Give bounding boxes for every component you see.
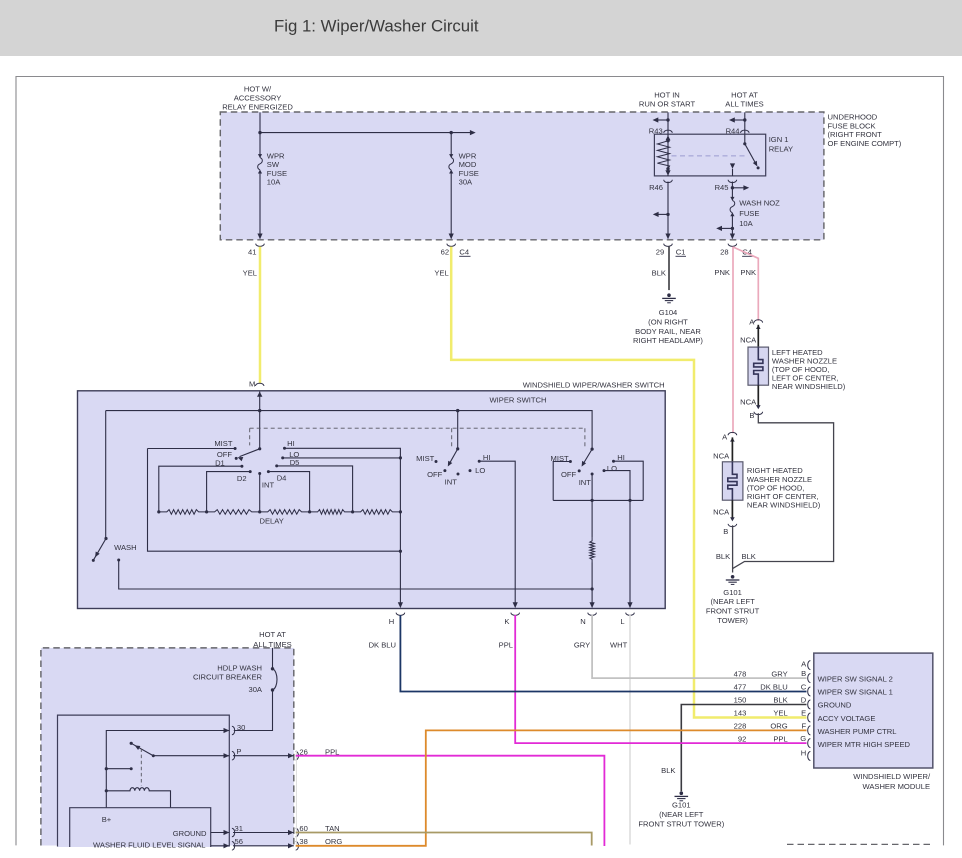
middle switch arm: [449, 449, 458, 464]
left switch LO contact: [281, 456, 284, 459]
left switch HI contact: [283, 447, 286, 450]
wire ORG 38 to module F: [296, 730, 807, 845]
svg-text:31: 31: [235, 824, 243, 833]
svg-text:CIRCUIT BREAKER: CIRCUIT BREAKER: [193, 672, 263, 681]
svg-text:NCA: NCA: [713, 452, 730, 461]
left switch INT contact: [258, 472, 261, 475]
svg-text:HI: HI: [287, 439, 295, 448]
svg-text:10A: 10A: [739, 219, 753, 228]
svg-text:TOWER): TOWER): [717, 616, 748, 625]
windshield wiper/washer module box: [814, 653, 933, 768]
svg-text:A: A: [801, 660, 807, 669]
circuit breaker HDLP WASH 30A: [272, 648, 274, 668]
wire M feed: [259, 392, 261, 449]
wire P to connector 26: [233, 755, 294, 757]
svg-text:WASHER FLUID LEVEL SIGNAL: WASHER FLUID LEVEL SIGNAL: [93, 841, 206, 850]
terminal N: [590, 602, 595, 608]
svg-text:C: C: [801, 683, 807, 692]
wash contact wire to N: [117, 559, 120, 562]
wire PPL 26: [296, 756, 605, 846]
left rail MIST to delay bottom: [148, 449, 401, 552]
svg-text:BLK: BLK: [742, 552, 756, 561]
svg-text:NCA: NCA: [740, 336, 757, 345]
terminal P: [224, 753, 230, 758]
left switch D4 contact: [267, 470, 270, 473]
svg-text:228: 228: [734, 722, 747, 731]
svg-text:P: P: [236, 747, 241, 756]
svg-text:WPR: WPR: [459, 151, 477, 160]
svg-text:WINDSHIELD WIPER/: WINDSHIELD WIPER/: [853, 772, 931, 781]
wire breaker to terminal 30: [234, 690, 273, 731]
svg-text:(RIGHT FRONT: (RIGHT FRONT: [828, 130, 883, 139]
svg-text:H: H: [389, 617, 394, 626]
wire HI to terminal H: [285, 448, 401, 604]
wire right nozzle B to ground G101: [732, 525, 734, 572]
svg-text:PNK: PNK: [714, 268, 730, 277]
left switch D5 contact: [275, 464, 278, 467]
right switch LO contact: [603, 469, 606, 472]
svg-text:GRY: GRY: [771, 669, 787, 678]
wire left nozzle B to ground G101: [733, 413, 834, 568]
resistor in wiper switch: [590, 538, 595, 563]
svg-text:BODY RAIL, NEAR: BODY RAIL, NEAR: [635, 327, 701, 336]
wire R43 feed: [667, 112, 669, 134]
svg-text:OFF: OFF: [561, 470, 577, 479]
wire 31 to connector 60: [233, 832, 294, 834]
svg-text:OFF: OFF: [427, 470, 443, 479]
svg-text:HI: HI: [483, 453, 491, 462]
inline connector B right nozzle: [730, 517, 735, 521]
svg-text:BLK: BLK: [661, 766, 675, 775]
wire R46 to terminal 29: [667, 182, 669, 239]
washer pump switch contact: [106, 768, 131, 770]
ground G104: [667, 293, 671, 297]
svg-text:150: 150: [734, 695, 747, 704]
svg-text:62: 62: [441, 247, 449, 256]
left switch OFF contact: [235, 457, 238, 460]
svg-text:TAN: TAN: [325, 824, 340, 833]
svg-text:MIST: MIST: [214, 439, 233, 448]
arrow out of relay R46: [665, 170, 670, 175]
svg-text:Fig 1: Wiper/Washer Circuit: Fig 1: Wiper/Washer Circuit: [274, 17, 479, 36]
svg-text:E: E: [801, 709, 806, 718]
svg-text:INT: INT: [262, 480, 275, 489]
svg-text:WASH NOZ: WASH NOZ: [739, 199, 780, 208]
svg-text:G: G: [800, 734, 806, 743]
terminal 62 C4: [449, 234, 454, 240]
svg-text:DELAY: DELAY: [260, 517, 284, 526]
svg-text:30: 30: [237, 723, 245, 732]
svg-text:K: K: [504, 617, 509, 626]
svg-text:FRONT STRUT TOWER): FRONT STRUT TOWER): [638, 820, 724, 829]
svg-text:NEAR WINDSHIELD): NEAR WINDSHIELD): [747, 501, 821, 510]
svg-text:N: N: [580, 617, 585, 626]
svg-text:FUSE: FUSE: [267, 169, 287, 178]
svg-text:DK BLU: DK BLU: [760, 682, 787, 691]
wire R45 to WASH NOZ fuse: [731, 182, 733, 201]
svg-text:GROUND: GROUND: [173, 829, 207, 838]
svg-text:R45: R45: [715, 183, 729, 192]
svg-text:LO: LO: [607, 464, 617, 473]
right wiper switch pivot: [591, 448, 594, 451]
svg-text:D: D: [801, 696, 807, 705]
module terminals A-H: [808, 661, 811, 670]
wire resistor to terminal N: [591, 563, 593, 605]
fuse WASH NOZ FUSE 10A: [730, 197, 734, 201]
svg-text:RUN OR START: RUN OR START: [639, 100, 696, 109]
terminal L: [627, 602, 632, 608]
svg-text:29: 29: [656, 247, 664, 256]
wire INT to resistor: [591, 474, 593, 538]
mechanical link dashed: [250, 427, 585, 429]
middle switch OFF contact: [443, 469, 446, 472]
svg-text:D4: D4: [277, 474, 287, 483]
svg-text:D2: D2: [237, 474, 247, 483]
terminal 41: [257, 234, 262, 240]
washer pump switch arm: [130, 742, 133, 745]
svg-text:MIST: MIST: [416, 454, 435, 463]
svg-text:FUSE: FUSE: [739, 209, 759, 218]
middle switch HI contact: [478, 460, 481, 463]
svg-text:B: B: [749, 411, 754, 420]
svg-text:BLK: BLK: [652, 269, 666, 278]
svg-text:SW: SW: [267, 160, 280, 169]
svg-text:LO: LO: [475, 466, 485, 475]
svg-text:G101: G101: [672, 801, 691, 810]
terminal H: [398, 602, 403, 608]
partial dashed box bottom right: [787, 843, 934, 845]
svg-text:NCA: NCA: [740, 398, 757, 407]
svg-text:HOT W/: HOT W/: [244, 85, 272, 94]
washer pump relay coil dashed link: [140, 749, 142, 786]
wire BLK 29 to G104: [668, 247, 670, 291]
wire left nozzle A: [757, 325, 759, 347]
terminal K: [513, 602, 518, 608]
svg-text:ORG: ORG: [325, 837, 342, 846]
svg-text:RELAY ENERGIZED: RELAY ENERGIZED: [222, 103, 293, 112]
wash switch pivot and arm: [104, 537, 107, 540]
washer pump coil: [106, 788, 170, 808]
svg-text:H: H: [801, 748, 806, 757]
terminal 28 C4: [728, 244, 737, 247]
svg-text:L: L: [620, 617, 624, 626]
terminal 31: [224, 830, 230, 835]
middle switch MIST contact: [435, 460, 438, 463]
svg-text:38: 38: [299, 837, 307, 846]
svg-text:B: B: [801, 669, 806, 678]
fuse WPR SW FUSE 10A: [258, 154, 262, 158]
svg-text:28: 28: [720, 247, 728, 256]
left switch pivot and arm: [258, 447, 261, 450]
svg-text:HOT AT: HOT AT: [259, 630, 286, 639]
delay resistor ladder: [159, 510, 207, 515]
svg-text:41: 41: [248, 247, 256, 256]
svg-text:MOD: MOD: [459, 160, 477, 169]
wire fuse to terminal 28: [731, 213, 733, 238]
wire right nozzle A: [731, 437, 733, 461]
svg-text:PPL: PPL: [773, 735, 787, 744]
wire ground pin to 31: [211, 832, 230, 834]
svg-text:M: M: [249, 379, 255, 388]
connector R45: [728, 180, 737, 183]
svg-text:NCA: NCA: [713, 508, 730, 517]
wiper/washer switch box: [78, 391, 666, 609]
svg-text:GROUND: GROUND: [818, 701, 852, 710]
svg-text:YEL: YEL: [434, 269, 448, 278]
wire rail to terminal L: [629, 500, 631, 604]
terminal 30: [224, 728, 230, 733]
svg-text:PNK: PNK: [740, 268, 756, 277]
right heated washer nozzle: [722, 462, 743, 500]
wire GRY from N to module B: [592, 615, 806, 678]
wire WPR MOD fuse: [450, 133, 452, 158]
right switch arm: [583, 449, 592, 464]
connector R46: [664, 180, 673, 183]
header bar: [0, 0, 962, 56]
terminal 56: [224, 843, 230, 848]
wire BLK module D to ground G101: [681, 705, 806, 792]
connector column line: [295, 750, 297, 845]
bus from M across switches: [106, 411, 592, 450]
svg-text:WASH: WASH: [114, 543, 137, 552]
svg-text:PPL: PPL: [499, 641, 513, 650]
svg-text:DK BLU: DK BLU: [369, 641, 396, 650]
svg-text:ACCY VOLTAGE: ACCY VOLTAGE: [818, 714, 876, 723]
svg-text:60: 60: [299, 824, 307, 833]
middle switch INT contact: [457, 473, 460, 476]
wire TAN 60: [296, 833, 592, 846]
svg-text:30A: 30A: [459, 178, 473, 187]
svg-text:WHT: WHT: [610, 641, 628, 650]
svg-text:WIPER SWITCH: WIPER SWITCH: [490, 396, 547, 405]
svg-text:G101: G101: [723, 588, 742, 597]
wire WPR SW fuse feed: [259, 112, 261, 157]
svg-text:WPR: WPR: [267, 151, 285, 160]
wire R44 feed: [744, 112, 746, 134]
svg-text:ALL TIMES: ALL TIMES: [725, 100, 763, 109]
svg-text:YEL: YEL: [773, 708, 787, 717]
svg-text:RIGHT HEADLAMP): RIGHT HEADLAMP): [633, 336, 703, 345]
svg-text:HI: HI: [617, 453, 625, 462]
left switch D2 contact: [249, 470, 252, 473]
svg-text:92: 92: [738, 735, 746, 744]
svg-text:GRY: GRY: [574, 641, 590, 650]
washer pump motor box B+: [70, 808, 211, 847]
washer pump dashed box: [41, 648, 294, 846]
svg-text:R46: R46: [649, 183, 663, 192]
svg-text:RELAY: RELAY: [769, 145, 793, 154]
svg-text:(NEAR LEFT: (NEAR LEFT: [659, 810, 704, 819]
relay switch lower contact R45: [730, 163, 735, 168]
svg-text:ORG: ORG: [770, 722, 787, 731]
svg-text:(ON RIGHT: (ON RIGHT: [648, 318, 688, 327]
svg-text:YEL: YEL: [243, 269, 257, 278]
svg-text:HOT IN: HOT IN: [654, 91, 680, 100]
svg-text:NEAR WINDSHIELD): NEAR WINDSHIELD): [772, 382, 846, 391]
svg-text:478: 478: [734, 669, 747, 678]
right switch common rail: [553, 499, 643, 501]
wire middle HI to terminal K: [479, 461, 515, 604]
svg-text:INT: INT: [445, 478, 458, 487]
svg-text:A: A: [722, 433, 728, 442]
wire PPL K to module G: [515, 615, 806, 743]
svg-text:WASHER MODULE: WASHER MODULE: [862, 782, 930, 791]
wire YEL from 62 to module E: [451, 247, 806, 718]
svg-text:FUSE: FUSE: [459, 169, 479, 178]
relay coil: [666, 135, 671, 140]
svg-text:BLK: BLK: [773, 695, 787, 704]
svg-text:C1: C1: [676, 247, 686, 256]
wire PNK 28 to left nozzle: [733, 247, 758, 321]
svg-text:F: F: [802, 721, 807, 730]
svg-text:WIPER SW SIGNAL 2: WIPER SW SIGNAL 2: [818, 675, 893, 684]
bus wire to WPR MOD fuse: [260, 132, 472, 134]
inline connector B left nozzle: [756, 405, 761, 409]
left wiper switch: MIST contact: [148, 448, 236, 450]
svg-text:(NEAR LEFT: (NEAR LEFT: [710, 597, 755, 606]
svg-text:G104: G104: [659, 308, 678, 317]
svg-text:WINDSHIELD WIPER/WASHER SWITCH: WINDSHIELD WIPER/WASHER SWITCH: [523, 381, 665, 390]
svg-text:FUSE BLOCK: FUSE BLOCK: [828, 121, 876, 130]
svg-text:WIPER MTR HIGH SPEED: WIPER MTR HIGH SPEED: [818, 740, 911, 749]
fuse WPR MOD FUSE 30A: [449, 154, 453, 158]
wire WHT from L: [629, 615, 631, 845]
wire switch to terminal P: [153, 755, 229, 757]
terminal 29 C1: [664, 244, 673, 247]
relay switch arm: [744, 134, 746, 143]
svg-text:477: 477: [734, 682, 747, 691]
svg-text:56: 56: [235, 837, 243, 846]
relay U1 IGN 1 box: [654, 134, 765, 176]
svg-text:WASHER PUMP CTRL: WASHER PUMP CTRL: [818, 727, 897, 736]
connector R44: [741, 130, 750, 133]
svg-text:B+: B+: [102, 815, 112, 824]
right switch MIST contact: [569, 460, 572, 463]
right switch OFF contact: [578, 469, 581, 472]
svg-text:143: 143: [734, 708, 747, 717]
ground G101 right: [731, 575, 735, 579]
right switch INT contact: [591, 473, 594, 476]
svg-text:C4: C4: [459, 247, 469, 256]
svg-text:IGN 1: IGN 1: [769, 135, 789, 144]
middle switch LO contact: [469, 469, 472, 472]
svg-text:10A: 10A: [267, 178, 281, 187]
svg-text:OF ENGINE COMPT): OF ENGINE COMPT): [828, 139, 902, 148]
left switch D1 contact: [240, 465, 243, 468]
svg-text:WIPER SW SIGNAL 1: WIPER SW SIGNAL 1: [818, 688, 893, 697]
svg-text:FRONT STRUT: FRONT STRUT: [706, 607, 760, 616]
left heated washer nozzle: [748, 347, 769, 385]
washer pump inner box: [58, 715, 230, 847]
svg-text:BLK: BLK: [716, 552, 730, 561]
wire left side down to wash switch: [105, 411, 107, 539]
svg-text:B: B: [723, 527, 728, 536]
wire 56 to connector 38: [233, 845, 294, 847]
svg-text:UNDERHOOD: UNDERHOOD: [828, 113, 878, 122]
relay switch contact dashed link: [672, 155, 749, 157]
wire left nozzle to B: [757, 385, 759, 406]
wire fluid level pin to 56: [211, 845, 230, 847]
right switch HI contact: [612, 460, 615, 463]
ground G101 left: [680, 791, 684, 795]
wire terminal 30 into pump: [106, 731, 229, 808]
underhood fuse block box: [220, 112, 824, 240]
wire DK BLU from H to module C: [400, 615, 806, 692]
wire right nozzle to B: [731, 500, 733, 518]
svg-text:ACCESSORY: ACCESSORY: [234, 94, 282, 103]
connector R43: [664, 130, 673, 133]
svg-text:HOT AT: HOT AT: [731, 91, 758, 100]
middle wiper switch feed: [457, 411, 459, 449]
wire YEL from 41 to M: [259, 247, 262, 384]
wire PNK 28 to right nozzle: [732, 247, 734, 434]
svg-text:30A: 30A: [248, 685, 262, 694]
svg-text:INT: INT: [579, 478, 592, 487]
